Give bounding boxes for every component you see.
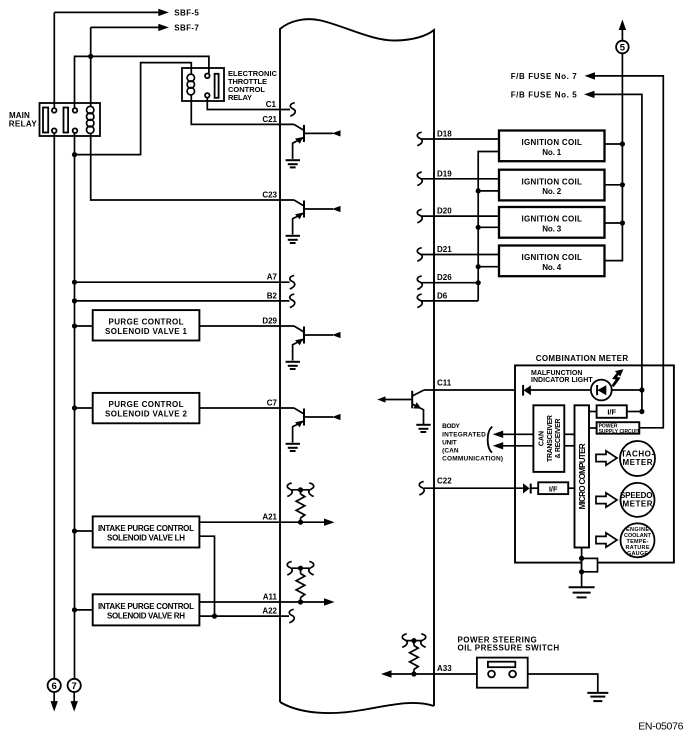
wire main relay contact 2 lower to terminal 7 <box>74 133 76 679</box>
junction intake purge RH <box>72 607 77 612</box>
junction on SBF-7 drop <box>88 54 93 59</box>
junction A11 pull-up <box>298 599 303 604</box>
ECM module outline (left edge, wavy top, right edge, wavy bottom) <box>280 19 434 713</box>
wire D20 <box>422 215 500 217</box>
junction B2 <box>72 298 77 303</box>
power steering oil pressure switch <box>477 658 528 688</box>
lightning flash at MIL <box>613 371 620 386</box>
malfunction indicator light (LED) <box>591 380 612 401</box>
arrow below terminal 6 <box>53 692 55 702</box>
arrow to terminal 5 <box>619 20 626 31</box>
label BODY INTEGRATED UNIT (CAN COMMUNICATION) <box>442 423 503 462</box>
svg-text:D21: D21 <box>437 245 452 254</box>
wire C22 <box>424 487 523 489</box>
arrow below terminal 7 <box>73 692 75 702</box>
wire I/F 2 to micro computer <box>568 487 574 489</box>
wire C21 from ETC relay coil <box>191 96 294 125</box>
wire D19 <box>422 178 500 180</box>
svg-text:CAN: CAN <box>539 431 546 446</box>
terminal circle 6 <box>48 679 61 692</box>
transistor at C21 <box>286 124 341 167</box>
arrow A21 <box>324 519 335 526</box>
pull-up resistor at A11 <box>287 561 313 602</box>
svg-text:B2: B2 <box>267 291 278 300</box>
svg-text:A21: A21 <box>262 513 277 522</box>
svg-text:F/B FUSE No. 5: F/B FUSE No. 5 <box>511 90 578 99</box>
svg-text:IGNITION COIL: IGNITION COIL <box>521 215 582 224</box>
pull-up resistor at A33 <box>402 634 425 674</box>
wire C1 from ETC relay contact <box>207 98 290 110</box>
engine coolant temperature gauge circle <box>621 523 655 557</box>
ground under combination meter <box>569 587 595 597</box>
wire A7 <box>75 281 290 283</box>
svg-text:D19: D19 <box>437 169 452 178</box>
block arrow to tachometer <box>596 451 617 465</box>
combination meter box <box>515 365 674 562</box>
transistor at C23 <box>286 200 341 243</box>
arrow to SBF-5 <box>158 9 169 16</box>
svg-text:D26: D26 <box>437 273 452 282</box>
svg-text:A22: A22 <box>262 607 277 616</box>
svg-text:EN-05076: EN-05076 <box>638 720 683 732</box>
box INTAKE PURGE CONTROL SOLENOID VALVE LH <box>93 516 200 547</box>
svg-text:6: 6 <box>52 681 57 692</box>
box IGNITION COIL No. 2 <box>499 170 605 201</box>
break at A22 <box>289 609 294 623</box>
svg-text:C23: C23 <box>262 191 277 200</box>
transistor at C11 (mirrored, base to micro computer side) <box>385 390 424 425</box>
wire I/F to supply <box>627 411 642 413</box>
svg-text:INTAKE PURGE CONTROL: INTAKE PURGE CONTROL <box>98 524 194 533</box>
wire SBF-7 feed <box>91 27 159 106</box>
wire ETC relay coil feed <box>76 63 191 155</box>
box INTAKE PURGE CONTROL SOLENOID VALVE RH <box>93 594 200 625</box>
svg-text:C21: C21 <box>262 115 277 124</box>
CAN line lower to body integrated unit <box>502 445 533 447</box>
CAN link upper to micro computer <box>564 433 574 435</box>
svg-text:SOLENOID VALVE 1: SOLENOID VALVE 1 <box>105 327 188 336</box>
transistor at D29 <box>286 326 341 369</box>
block arrow to temperature gauge <box>596 533 617 547</box>
svg-text:D29: D29 <box>262 317 277 326</box>
svg-text:F/B FUSE No. 7: F/B FUSE No. 7 <box>511 72 578 81</box>
wire D26 to coil common bus <box>422 282 479 284</box>
svg-text:RELAY: RELAY <box>9 119 38 128</box>
wire intake purge RH tap <box>75 609 93 611</box>
svg-text:SOLENOID VALVE 2: SOLENOID VALVE 2 <box>105 410 188 419</box>
svg-text:C22: C22 <box>437 477 452 486</box>
transistor at C7 <box>286 408 341 451</box>
ground at C11 transistor <box>416 425 430 432</box>
wire diode to I/F 2 <box>531 487 539 489</box>
wire micro computer to I/F 1 <box>589 411 597 413</box>
svg-text:ENGINE: ENGINE <box>626 527 649 533</box>
wire main relay contact 1 lower to terminal 6 <box>53 133 55 679</box>
svg-text:A7: A7 <box>267 273 278 282</box>
terminal circle 5 <box>616 41 629 54</box>
svg-text:C1: C1 <box>266 100 277 109</box>
svg-text:SBF-7: SBF-7 <box>174 23 199 32</box>
svg-text:RELAY: RELAY <box>228 93 252 102</box>
svg-text:IGNITION COIL: IGNITION COIL <box>521 253 582 262</box>
CAN link lower to micro computer <box>564 445 574 447</box>
wire purge valve 1 tap <box>75 325 93 327</box>
svg-text:MICRO COMPUTER: MICRO COMPUTER <box>578 443 587 509</box>
svg-text:C7: C7 <box>267 399 278 408</box>
wire purge valve 2 tap <box>75 407 93 409</box>
tachometer circle <box>620 441 655 476</box>
arrow A11 <box>324 598 335 605</box>
break at B2 <box>290 294 295 308</box>
wire ignition coil supply bus to terminal 5 <box>605 29 623 261</box>
svg-text:7: 7 <box>72 681 77 692</box>
wire relay supply bus y=56.4 <box>75 56 209 108</box>
box PURGE CONTROL SOLENOID VALVE 1 <box>93 310 200 340</box>
svg-text:(CAN: (CAN <box>442 447 459 454</box>
box IGNITION COIL No. 4 <box>499 246 605 277</box>
wire D21 <box>422 254 500 256</box>
svg-text:SUPPLY CIRCUIT: SUPPLY CIRCUIT <box>599 429 640 435</box>
break at A7 <box>290 275 295 289</box>
svg-text:5: 5 <box>620 42 626 53</box>
electronic throttle control relay <box>182 68 224 101</box>
svg-text:No. 3: No. 3 <box>542 224 562 233</box>
wire B2 <box>75 300 290 302</box>
svg-text:COMMUNICATION): COMMUNICATION) <box>442 455 503 462</box>
diode on C11 line <box>522 385 524 396</box>
svg-text:METER: METER <box>623 458 653 467</box>
diode on C22 line <box>523 483 530 493</box>
wire micro computer to power supply circuit <box>589 427 597 429</box>
svg-text:D20: D20 <box>437 207 452 216</box>
box IGNITION COIL No. 1 <box>499 131 605 162</box>
ground at power steering switch <box>587 693 608 701</box>
junction intake purge LH <box>72 528 77 533</box>
svg-text:SOLENOID VALVE LH: SOLENOID VALVE LH <box>107 534 185 543</box>
svg-text:No. 4: No. 4 <box>542 263 562 272</box>
svg-text:COOLANT: COOLANT <box>624 533 652 539</box>
wire ignition coil common bus <box>478 152 499 301</box>
meter ground connector loop <box>582 558 598 571</box>
svg-text:INTEGRATED: INTEGRATED <box>442 431 486 438</box>
wire intake purge LH tap <box>75 530 93 532</box>
wire MIL to supply <box>612 389 642 391</box>
junction A21 pull-up <box>298 520 303 525</box>
block arrow to speedometer <box>596 493 617 507</box>
wire to F/B FUSE No. 5 <box>594 94 642 411</box>
svg-text:UNIT: UNIT <box>442 439 457 446</box>
wire A21 <box>199 521 324 523</box>
svg-text:PURGE CONTROL: PURGE CONTROL <box>109 400 184 409</box>
svg-text:PURGE CONTROL: PURGE CONTROL <box>109 317 184 326</box>
svg-text:INTAKE PURGE CONTROL: INTAKE PURGE CONTROL <box>98 602 194 611</box>
wire A22 <box>199 615 289 617</box>
arrow to SBF-7 <box>158 24 169 31</box>
wire D18 <box>422 138 500 140</box>
svg-text:D6: D6 <box>437 291 448 300</box>
bracket at body integrated unit <box>488 427 493 453</box>
svg-text:SBF-5: SBF-5 <box>174 8 199 17</box>
svg-text:No. 2: No. 2 <box>542 187 562 196</box>
break at C1 <box>290 103 295 117</box>
svg-text:RATURE: RATURE <box>626 545 650 551</box>
svg-text:TRANSCEIVER: TRANSCEIVER <box>547 415 554 462</box>
svg-text:C11: C11 <box>437 379 452 388</box>
svg-text:I/F: I/F <box>607 408 616 417</box>
label ELECTRONIC THROTTLE CONTROL RELAY <box>228 69 278 102</box>
wire C11 to MIL <box>531 389 591 391</box>
wire main relay coil to C23 <box>91 133 294 200</box>
box IGNITION COIL No. 3 <box>499 207 605 238</box>
main relay MR <box>40 103 101 136</box>
svg-text:SOLENOID VALVE RH: SOLENOID VALVE RH <box>107 611 185 620</box>
pull-up resistor at A21 <box>287 483 313 522</box>
junction main relay output to ETC coil <box>72 152 77 157</box>
svg-text:A33: A33 <box>437 664 452 673</box>
junction A22 <box>212 614 217 619</box>
box MICRO COMPUTER <box>575 405 590 547</box>
svg-text:MALFUNCTION: MALFUNCTION <box>531 370 582 377</box>
box PURGE CONTROL SOLENOID VALVE 2 <box>93 393 200 423</box>
CAN line upper to body integrated unit <box>502 433 533 435</box>
wire C7 <box>199 407 294 409</box>
wire intake purge LH second terminal to A22 <box>199 536 214 616</box>
junction purge valve 2 <box>72 405 77 410</box>
svg-text:No. 1: No. 1 <box>542 148 562 157</box>
svg-text:BODY: BODY <box>442 423 460 430</box>
speedometer circle <box>621 483 655 517</box>
box I/F lower <box>538 482 568 494</box>
junction purge valve 1 <box>72 323 77 328</box>
box I/F upper <box>597 405 627 418</box>
wire D29 <box>199 325 294 327</box>
svg-text:INDICATOR LIGHT: INDICATOR LIGHT <box>531 377 593 384</box>
wire to F/B FUSE No. 7 <box>594 76 663 428</box>
terminal circle 7 <box>68 679 81 692</box>
svg-text:IGNITION COIL: IGNITION COIL <box>521 177 582 186</box>
box POWER SUPPLY CIRCUIT <box>597 422 640 434</box>
svg-text:TEMPE-: TEMPE- <box>627 539 649 545</box>
svg-text:A11: A11 <box>263 593 278 602</box>
junction A7 <box>72 280 77 285</box>
svg-text:METER: METER <box>623 499 653 508</box>
svg-text:COMBINATION METER: COMBINATION METER <box>536 354 629 363</box>
box CAN TRANSCEIVER & RECEIVER <box>533 405 564 472</box>
meter ground stem <box>581 548 583 587</box>
wire SBF-5 feed <box>54 12 158 108</box>
wire D6 to coil common bus <box>422 300 479 302</box>
svg-text:GAUGE: GAUGE <box>627 551 648 557</box>
wire A33 <box>391 674 598 693</box>
wire C11 <box>424 389 515 391</box>
wire A11 <box>199 601 324 603</box>
svg-text:OIL PRESSURE SWITCH: OIL PRESSURE SWITCH <box>458 644 560 653</box>
svg-text:& RECEIVER: & RECEIVER <box>555 419 562 459</box>
svg-text:I/F: I/F <box>549 484 558 493</box>
svg-text:IGNITION COIL: IGNITION COIL <box>521 138 582 147</box>
svg-text:D18: D18 <box>437 130 452 139</box>
